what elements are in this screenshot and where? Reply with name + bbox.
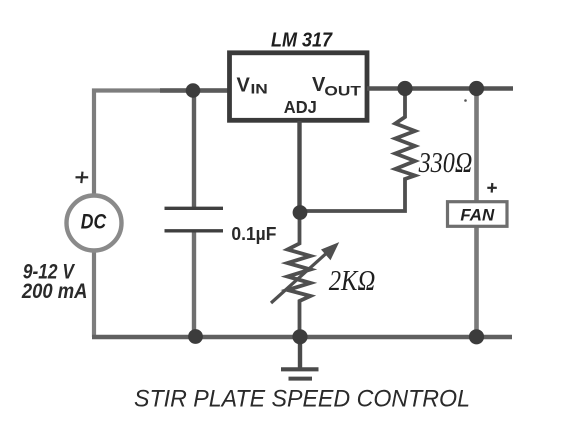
svg-text:FAN: FAN	[460, 206, 495, 224]
svg-text:STIR PLATE SPEED CONTROL: STIR PLATE SPEED CONTROL	[134, 386, 470, 413]
svg-text:2KΩ: 2KΩ	[329, 266, 376, 297]
svg-text:0.1µF: 0.1µF	[231, 224, 276, 244]
svg-text:OUT: OUT	[324, 82, 361, 98]
svg-text:ADJ: ADJ	[284, 97, 317, 117]
svg-text:330Ω: 330Ω	[418, 148, 473, 179]
svg-text:V: V	[237, 75, 251, 97]
svg-text:DC: DC	[81, 210, 107, 233]
svg-text:LM 317: LM 317	[271, 30, 333, 52]
svg-text:IN: IN	[251, 80, 268, 96]
svg-text:200 mA: 200 mA	[21, 280, 87, 303]
